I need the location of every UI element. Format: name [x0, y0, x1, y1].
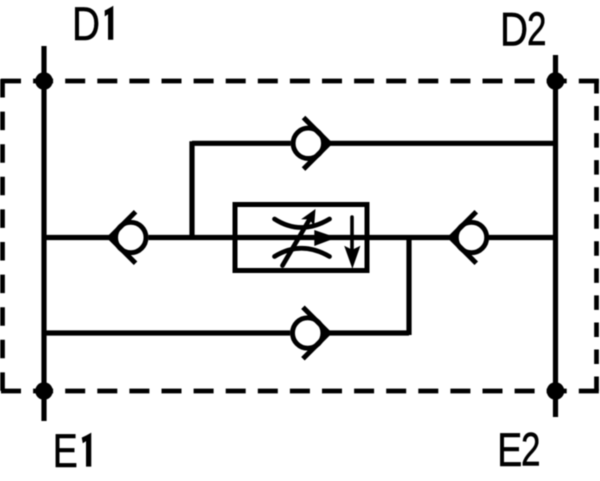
svg-text:2: 2 — [527, 2, 547, 55]
svg-text:E: E — [53, 424, 78, 477]
svg-text:D: D — [72, 0, 100, 50]
svg-text:E: E — [497, 423, 522, 476]
svg-text:2: 2 — [521, 422, 541, 475]
svg-text:D: D — [500, 3, 528, 56]
